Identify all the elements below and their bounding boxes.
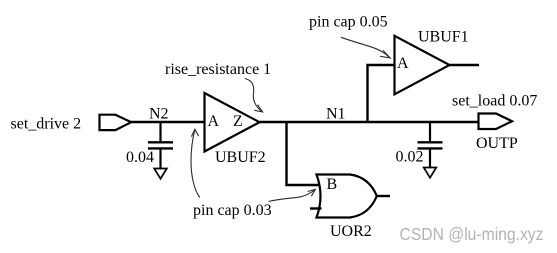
wire UOR2 input stub A — [310, 207, 322, 209]
wire UOR2 output stub — [377, 195, 391, 197]
or-gate UOR2 — [317, 175, 377, 218]
svg-text:0.04: 0.04 — [126, 149, 154, 166]
capacitor C2 0.02 — [418, 122, 443, 168]
svg-text:pin cap 0.05: pin cap 0.05 — [309, 14, 388, 31]
svg-text:OUTP: OUTP — [476, 135, 518, 152]
svg-text:CSDN @lu-ming.xyz: CSDN @lu-ming.xyz — [400, 224, 544, 244]
wire from input port to UBUF2 pin A — [130, 121, 206, 123]
svg-text:A: A — [208, 113, 220, 130]
output port OUTP — [479, 114, 513, 130]
svg-text:set_drive 2: set_drive 2 — [11, 116, 82, 133]
wire UBUF1 output stub — [450, 64, 480, 66]
svg-text:UBUF1: UBUF1 — [418, 29, 469, 46]
svg-text:pin cap 0.03: pin cap 0.03 — [193, 202, 272, 219]
svg-text:B: B — [327, 176, 338, 193]
buffer UBUF2 — [205, 93, 260, 152]
capacitor C1 0.04 — [148, 122, 173, 169]
arrow pin cap 0.03 to B pin of UOR2 — [269, 189, 316, 201]
ground for C2 — [424, 168, 437, 178]
svg-text:N1: N1 — [326, 106, 346, 123]
svg-text:Z: Z — [233, 113, 243, 130]
arrow rise_resistance to Z output — [245, 79, 263, 113]
svg-text:N2: N2 — [149, 106, 169, 123]
svg-text:UBUF2: UBUF2 — [215, 149, 266, 166]
svg-text:0.02: 0.02 — [396, 149, 424, 166]
svg-text:A: A — [397, 55, 409, 72]
svg-text:rise_resistance 1: rise_resistance 1 — [165, 61, 271, 78]
svg-text:set_load 0.07: set_load 0.07 — [452, 93, 537, 110]
svg-text:UOR2: UOR2 — [330, 223, 372, 240]
wire branch down to UOR2 pin B — [287, 122, 323, 185]
arrow pin cap 0.03 to A pin of UBUF2 — [191, 129, 200, 197]
wire N1 from UBUF2 output to output port — [260, 121, 480, 123]
wire branch up to UBUF1 input — [368, 65, 395, 122]
ground for C1 — [154, 169, 167, 179]
arrow pin cap 0.05 to A pin of UBUF1 — [341, 37, 390, 58]
buffer UBUF1 — [395, 36, 450, 95]
input port set_drive — [100, 115, 132, 130]
